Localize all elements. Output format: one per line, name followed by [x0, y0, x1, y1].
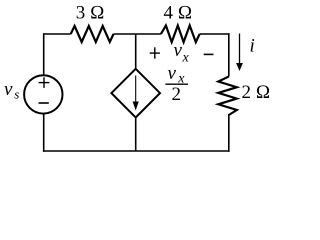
resistor R1 3 ohm [71, 26, 114, 42]
label vx/2 fraction bar [165, 83, 188, 85]
svg-text:2 Ω: 2 Ω [242, 82, 271, 103]
wire middle top [135, 34, 137, 70]
wire left bottom [43, 113, 45, 152]
wire top-right segment [200, 33, 230, 35]
label plus sign of vx [150, 52, 160, 54]
wire top-middle segment [114, 33, 161, 35]
dependent source U1 diamond [111, 69, 160, 118]
svg-text:v: v [4, 79, 13, 100]
svg-text:3 Ω: 3 Ω [76, 3, 105, 24]
svg-text:2: 2 [172, 84, 182, 105]
svg-text:v: v [168, 63, 177, 84]
svg-text:4 Ω: 4 Ω [163, 3, 192, 24]
resistor R2 4 ohm [161, 26, 200, 43]
dependent source arrow shaft [135, 76, 137, 104]
wire top-left segment [44, 33, 71, 35]
voltage source Vs circle [24, 75, 62, 113]
svg-text:i: i [250, 35, 255, 56]
dependent source arrow head [133, 102, 139, 111]
label minus sign of vx [204, 53, 214, 55]
wire right top [228, 33, 230, 76]
svg-text:v: v [174, 40, 183, 61]
svg-text:x: x [182, 50, 190, 65]
current i arrow shaft [239, 34, 241, 65]
wire middle bottom [135, 117, 137, 151]
resistor R3 2 ohm [218, 77, 237, 116]
svg-text:s: s [14, 86, 19, 101]
voltage source minus sign [39, 102, 49, 104]
current i arrow head [236, 63, 243, 71]
wire bottom [43, 150, 230, 152]
wire right bottom [228, 114, 230, 152]
voltage source plus sign [39, 82, 50, 84]
wire left top [43, 33, 45, 75]
